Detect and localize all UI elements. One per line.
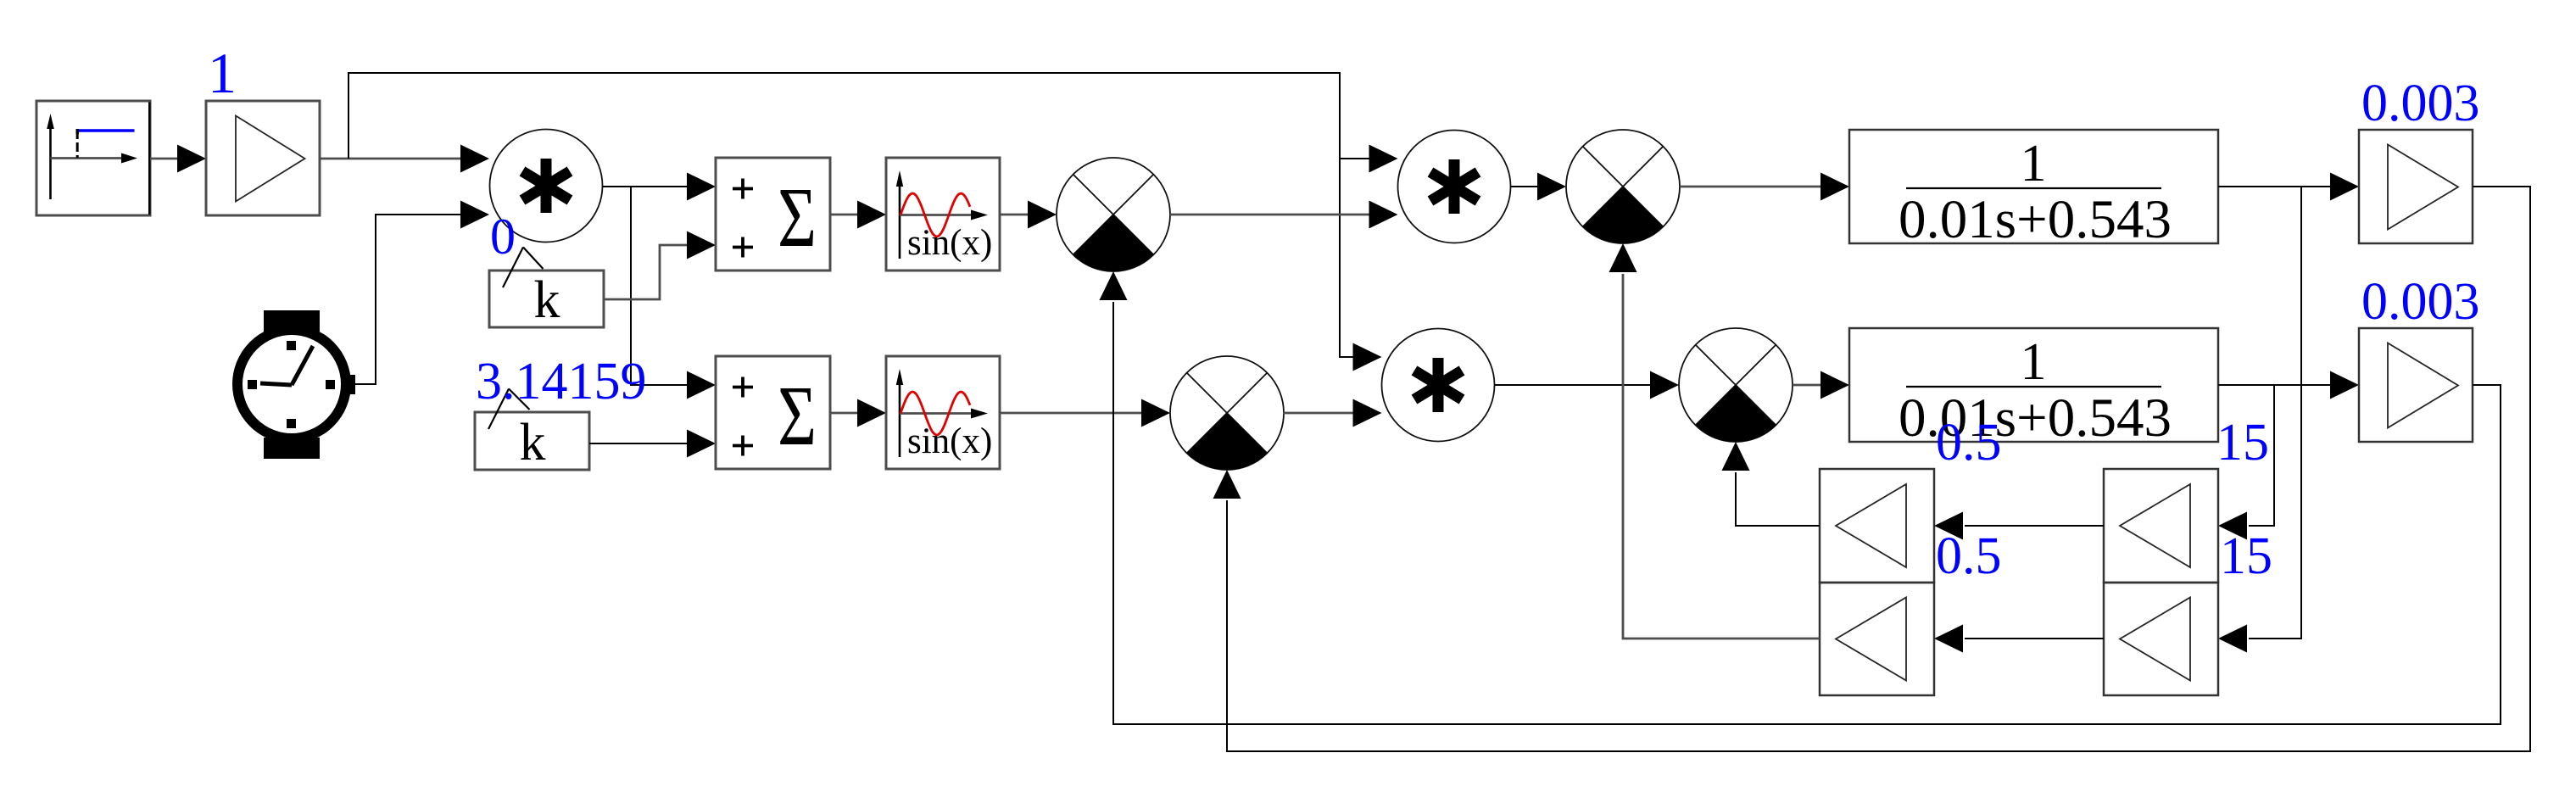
svg-text:sin(x): sin(x) [907, 421, 992, 461]
svg-text:0.003: 0.003 [2361, 75, 2480, 132]
gain block 0.003 top [2359, 130, 2473, 243]
wire k2 to sum2 [589, 430, 716, 458]
wire top feed loop [348, 73, 1398, 371]
wire sin1 to mixer 1 [1000, 201, 1057, 229]
gain block value 1 [206, 101, 320, 215]
wire multiplier C to mixer B [1511, 173, 1567, 201]
constant k2 value 3.14159 [475, 389, 589, 472]
wire transfer function 1 output [2218, 173, 2359, 653]
summation block 1 [716, 158, 830, 271]
svg-text:Σ: Σ [778, 368, 817, 464]
transfer function 1 1/(0.01s+0.543) [1849, 130, 2218, 250]
multiplier A [490, 130, 603, 243]
svg-text:sin(x): sin(x) [907, 223, 992, 263]
svg-text:1: 1 [2021, 333, 2047, 391]
wire step to gain [150, 145, 206, 173]
svg-text:0.01s+0.543: 0.01s+0.543 [1899, 189, 2172, 250]
wire gain05 row2 to mixer B [1609, 243, 1820, 639]
svg-text:Σ: Σ [778, 170, 817, 265]
step source block [36, 101, 150, 215]
sine block 2 [886, 356, 1000, 469]
wire gain15 row1 to gain05 row1 [1934, 512, 2104, 540]
clock block [237, 310, 355, 459]
wire mixer B to transfer function 1 [1680, 173, 1849, 201]
wire feedback loop from top gain [1213, 187, 2531, 751]
svg-text:15: 15 [2216, 414, 2269, 471]
wire sum1 to sin1 [830, 201, 886, 229]
gain block 0.5 row2 [1820, 583, 1934, 695]
wire k1 to sum1 [604, 231, 716, 300]
wire gain to multiplier [320, 145, 489, 173]
svg-text:1: 1 [2021, 135, 2047, 192]
summation block 2 [716, 356, 830, 469]
svg-text:3.14159: 3.14159 [476, 353, 647, 410]
mixer E (lower right product) [1679, 328, 1793, 442]
svg-text:0: 0 [490, 209, 516, 265]
wire multiplier A to sums [603, 173, 716, 399]
wire gain05 row1 to mixer E [1722, 442, 1820, 526]
wire multiplier D to mixer E [1495, 371, 1680, 399]
wire mixer1 to multiplier C [1170, 201, 1398, 229]
wire mixer2 to multiplier D [1283, 399, 1382, 427]
svg-text:k: k [520, 414, 546, 471]
wire mixer E to transfer function 2 [1793, 371, 1849, 399]
transfer function 2 1/(0.01s+0.543) [1849, 328, 2218, 449]
multiplier D [1382, 329, 1495, 442]
gain block 0.003 bottom [2359, 328, 2473, 442]
wire sin2 to mixer 2 [1000, 399, 1170, 427]
sine block 1 [886, 158, 1000, 271]
mixer 1 (upper left product) [1057, 158, 1170, 271]
mixer 2 (lower left product) [1170, 356, 1284, 470]
constant k1 value 0 [489, 248, 604, 330]
wire clock to multiplier [355, 201, 489, 385]
wire sum2 to sin2 [830, 399, 886, 427]
gain block 15 row1 [2104, 469, 2218, 583]
svg-text:0.5: 0.5 [1936, 527, 2002, 585]
gain block 15 row2 [2104, 583, 2218, 695]
svg-text:0.003: 0.003 [2361, 273, 2480, 331]
svg-text:k: k [534, 271, 560, 329]
wire transfer function 2 output [2218, 371, 2359, 540]
wire feedback loop from bottom gain [1100, 271, 2501, 724]
mixer B (upper right product) [1566, 130, 1680, 243]
svg-text:0.5: 0.5 [1936, 414, 2002, 471]
svg-text:15: 15 [2220, 527, 2272, 585]
multiplier C [1398, 131, 1511, 243]
gain block 0.5 row1 [1820, 469, 1934, 583]
wire gain15 row2 to gain05 row2 [1934, 625, 2104, 653]
svg-text:1: 1 [208, 41, 237, 105]
